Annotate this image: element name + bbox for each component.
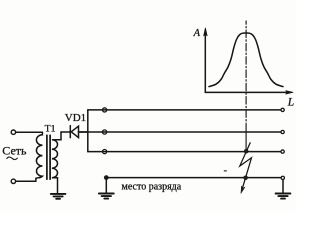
graph A-axis (204, 30, 206, 92)
svg-text:Т1: Т1 (45, 124, 56, 135)
tilde under Сеть (7, 157, 18, 159)
centre dash-dot line (245, 21, 247, 132)
wire terminal-bottom to primary (16, 180, 36, 182)
wire 1 (top line) (88, 109, 281, 111)
lightning discharge arrow (240, 143, 252, 191)
transformer T1 primary winding (36, 132, 43, 181)
lightning arrowhead (241, 186, 245, 193)
wire 2 (middle line) (79, 131, 280, 133)
wire 3 (bottom line) (88, 151, 281, 153)
centre line solid segment (245, 132, 247, 152)
diode VD1 anode wire (61, 131, 70, 133)
terminal circle wire3 left (103, 150, 107, 154)
wire bus right to ground (282, 180, 284, 193)
junction dot bus/lightning (243, 176, 248, 181)
mains terminal bottom (11, 179, 15, 183)
terminal circle wire2 right (281, 130, 284, 133)
svg-text:VD1: VD1 (65, 112, 86, 124)
terminal circle wire2 left (103, 130, 107, 134)
wire bus to left ground (105, 178, 107, 193)
transformer T1 secondary winding (52, 132, 61, 193)
bus vertical from diode to lines (87, 110, 89, 152)
wire terminal-top to primary (16, 131, 43, 133)
junction dot wire3/lightning (244, 149, 249, 154)
terminal circle bus right (281, 176, 284, 179)
terminal circle wire1 left (103, 108, 107, 112)
diode VD1 cathode bar (69, 126, 71, 138)
graph L-axis (205, 91, 287, 93)
transformer core bar right (49, 135, 51, 179)
terminal circle wire1 right (281, 108, 284, 111)
diode VD1 triangle (71, 126, 78, 137)
svg-text:место разряда: место разряда (122, 181, 182, 192)
svg-text:L: L (287, 96, 294, 108)
junction dot on bus left (104, 175, 109, 180)
resonance curve (209, 33, 283, 87)
graph A-axis arrowhead (204, 28, 208, 36)
ground at discharge bus left (99, 194, 114, 199)
graph L-axis arrowhead (286, 91, 294, 95)
transformer core bar left (46, 135, 48, 179)
terminal circle wire3 right (281, 150, 284, 153)
svg-text:A: A (193, 28, 201, 39)
ground at right (276, 194, 291, 199)
discharge bus (wire 4) (106, 177, 281, 179)
ground under transformer (51, 194, 66, 199)
mains terminal top (11, 130, 15, 134)
diode VD1 output wire (79, 131, 88, 133)
svg-text:Сеть: Сеть (2, 144, 27, 158)
